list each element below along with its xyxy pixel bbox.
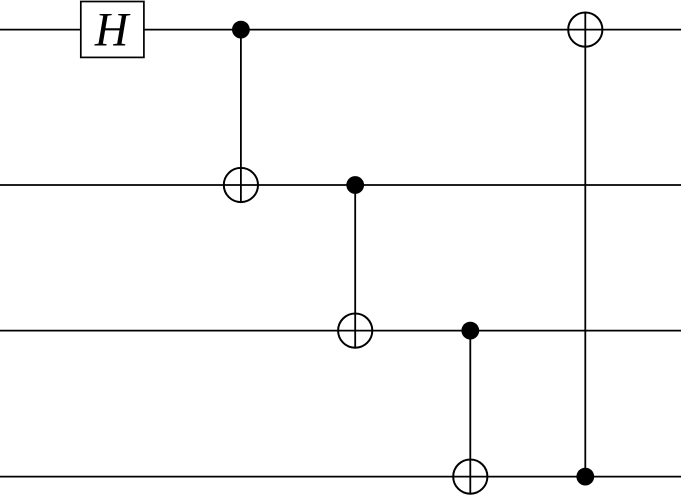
- wire q2: [0, 330, 681, 332]
- wire CNOT2 vertical connector: [354, 185, 356, 349]
- target oplus CNOT2 (on q2): [338, 314, 372, 348]
- wire q3: [0, 476, 681, 478]
- wire q0: [0, 29, 681, 31]
- wire CNOT1 vertical connector: [240, 30, 242, 203]
- control dot CNOT2 (on q1): [346, 176, 364, 194]
- wire CNOT3 vertical connector: [469, 331, 471, 495]
- target oplus CNOT1 (on q1): [224, 168, 258, 202]
- control dot CNOT3 (on q2): [461, 322, 479, 340]
- wire q1: [0, 184, 681, 186]
- control dot CNOT4 (on q3): [576, 468, 594, 486]
- target oplus CNOT3 (on q3): [453, 460, 487, 494]
- wire CNOT4 vertical connector: [584, 12, 586, 477]
- gate H (box on q0): [81, 2, 144, 58]
- control dot CNOT1 (on q0): [232, 21, 250, 39]
- target oplus CNOT4 (on q0): [568, 13, 602, 47]
